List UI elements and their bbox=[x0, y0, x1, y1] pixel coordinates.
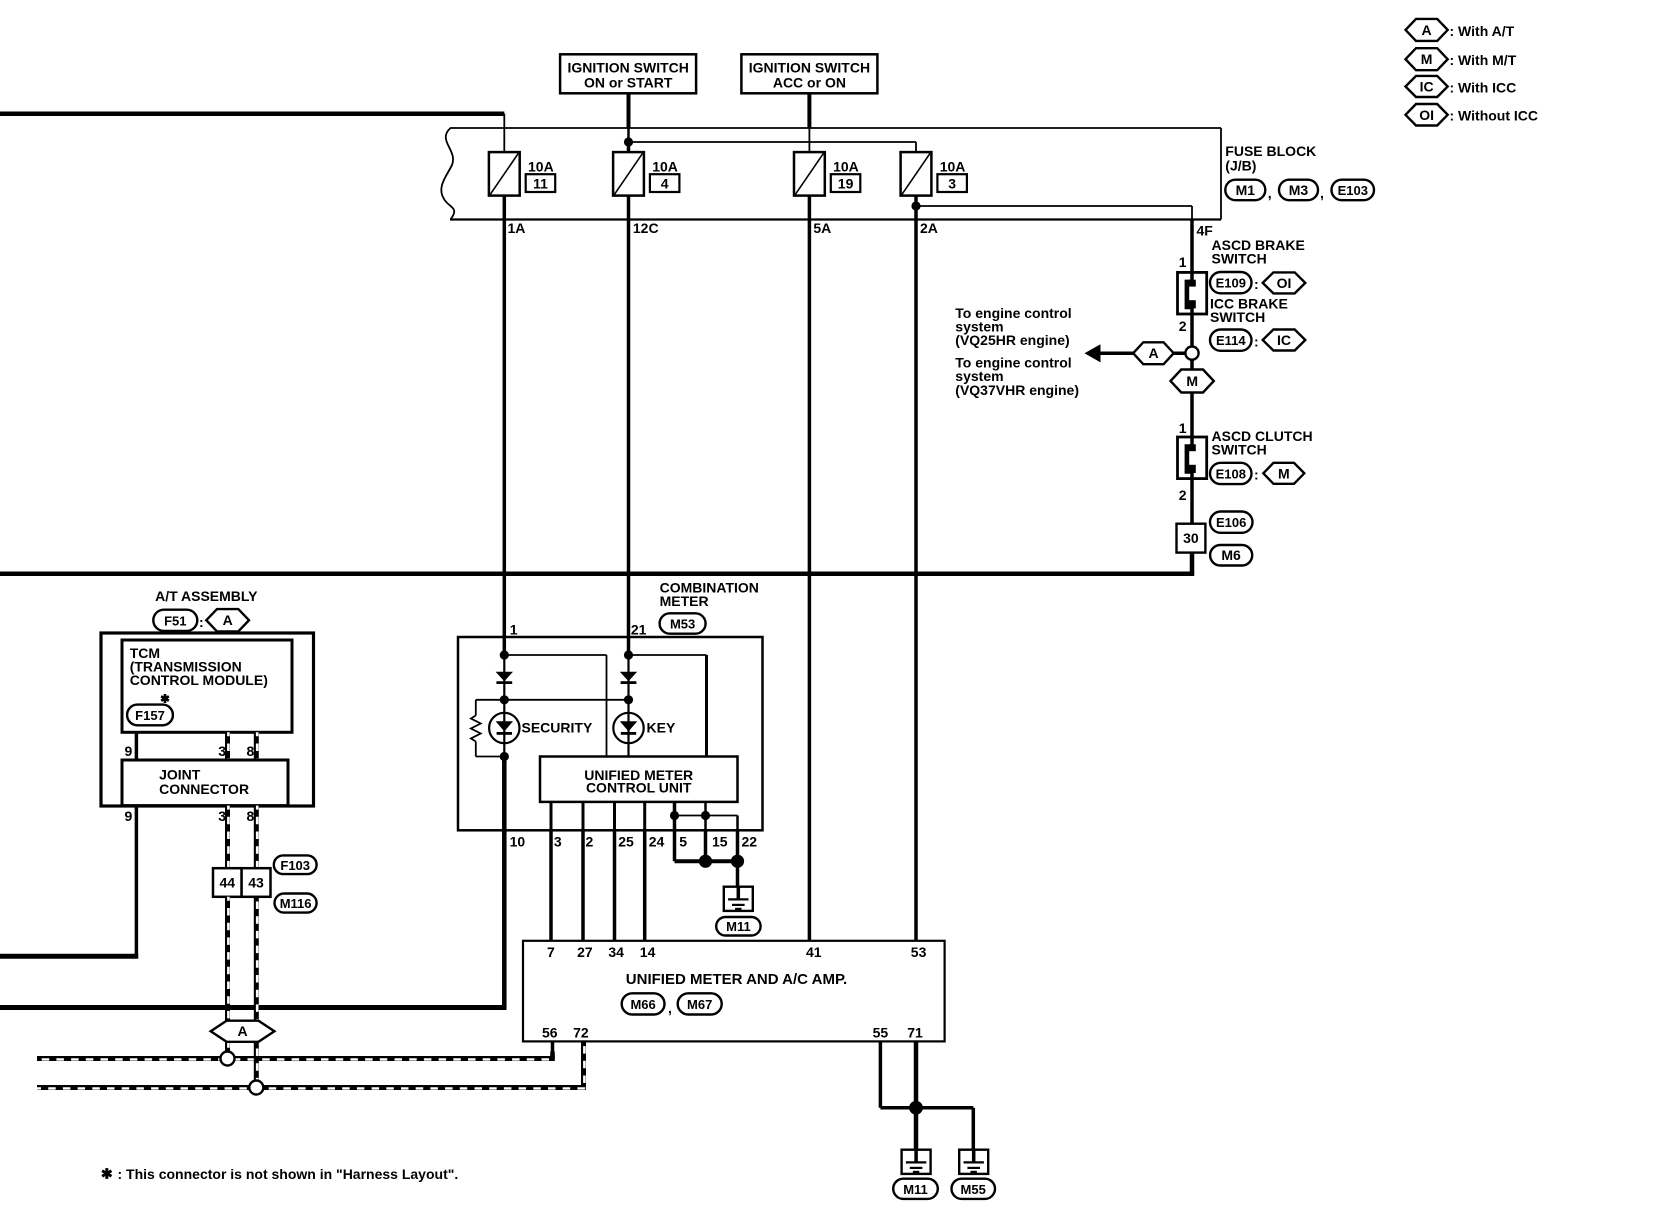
option hexagon A over wires bbox=[211, 1021, 275, 1042]
node dot security top bbox=[500, 650, 509, 659]
svg-text:43: 43 bbox=[248, 875, 264, 891]
svg-text:OI: OI bbox=[1277, 275, 1292, 291]
svg-text:72: 72 bbox=[573, 1025, 589, 1041]
connector F51 bbox=[153, 610, 197, 631]
ASCD brake switch contact bbox=[1178, 272, 1207, 314]
wire 44 striped down to shield line 1 bbox=[225, 897, 230, 1052]
svg-text:ON or START: ON or START bbox=[584, 75, 673, 91]
wire 4F inside fuse block bbox=[1191, 206, 1193, 220]
connector F103 bbox=[274, 855, 317, 874]
wire TCM pin 8 to joint connector (striped) bbox=[254, 732, 259, 760]
svg-text:25: 25 bbox=[618, 833, 634, 849]
svg-text:(J/B): (J/B) bbox=[1225, 158, 1256, 174]
wire 4F to ASCD brake switch pin 1 bbox=[1190, 220, 1194, 273]
wire resistor link bbox=[476, 699, 629, 701]
node fuse block top edge / wire bbox=[450, 127, 1221, 129]
wire meter pin 24 to amp pin 14 bbox=[643, 830, 647, 941]
unified meter control unit box bbox=[540, 757, 738, 802]
wire control unit pin 24 bbox=[643, 802, 646, 830]
svg-text:E106: E106 bbox=[1216, 515, 1246, 530]
connector M11 bbox=[893, 1179, 938, 1199]
connector M1 bbox=[1225, 180, 1265, 201]
connector M11 (meter ground) bbox=[716, 917, 760, 936]
svg-text:M116: M116 bbox=[280, 896, 312, 911]
wire pin 15 below meter bbox=[704, 830, 708, 861]
connector F157 bbox=[127, 705, 173, 726]
combination meter box bbox=[458, 637, 763, 830]
wire key diode/LED path bbox=[627, 655, 629, 757]
svg-text:: With A/T: : With A/T bbox=[1450, 23, 1515, 39]
wire battery power rail top-left bbox=[0, 111, 504, 116]
option hexagon OI bbox=[1263, 272, 1306, 293]
svg-text:: With M/T: : With M/T bbox=[1450, 52, 1517, 68]
svg-text:M66: M66 bbox=[630, 997, 655, 1012]
wire fuse-11 feed stub bbox=[503, 114, 505, 152]
connector M3 bbox=[1279, 180, 1318, 201]
option hexagon A bbox=[206, 609, 249, 631]
asterisk for F157 bbox=[164, 694, 167, 703]
svg-text:F51: F51 bbox=[164, 613, 186, 628]
svg-text:27: 27 bbox=[577, 944, 593, 960]
fuse 10A [4] bbox=[613, 152, 644, 196]
connector E114 bbox=[1210, 330, 1252, 351]
wire control unit pin 2 bbox=[582, 802, 585, 830]
wire pin 8 striped down to connector 43 bbox=[254, 806, 259, 869]
wire meter pin 2 to amp pin 27 bbox=[581, 830, 585, 941]
wire IGNITION SWITCH ACC or ON feed bbox=[807, 93, 811, 128]
connector E106 bbox=[1210, 512, 1253, 533]
shield wire line 2 (striped) bbox=[37, 1085, 586, 1090]
diode D1 (security) bbox=[496, 672, 513, 682]
wire control unit pin 25 bbox=[613, 802, 616, 830]
svg-text:IC: IC bbox=[1420, 79, 1434, 95]
svg-text:8: 8 bbox=[247, 808, 255, 824]
wire branch to 4F bbox=[916, 205, 1192, 207]
svg-text:CONTROL MODULE): CONTROL MODULE) bbox=[130, 672, 268, 688]
wire fuse-3 feed stub bbox=[915, 142, 917, 152]
wire control unit pin 5 bbox=[673, 802, 677, 830]
LED SECURITY bbox=[489, 713, 519, 743]
ground symbol M11 bbox=[902, 1150, 931, 1174]
svg-text:M67: M67 bbox=[687, 997, 712, 1012]
fuse 10A [3] bbox=[901, 152, 932, 196]
svg-text:F157: F157 bbox=[135, 708, 165, 723]
svg-text:9: 9 bbox=[125, 808, 133, 824]
wire TCM pin 9 to joint connector bbox=[135, 732, 139, 760]
svg-text:3: 3 bbox=[948, 176, 956, 192]
svg-text:1: 1 bbox=[1179, 420, 1187, 436]
svg-text:IC: IC bbox=[1277, 332, 1291, 348]
wire joint connector pin 9 down bbox=[135, 806, 139, 959]
node dot security mid bbox=[500, 695, 509, 704]
svg-text:F103: F103 bbox=[280, 858, 310, 873]
svg-text:A: A bbox=[223, 612, 233, 628]
wire IGNITION SWITCH ON or START feed bbox=[627, 93, 631, 128]
TCM box bbox=[122, 640, 292, 732]
svg-text:M3: M3 bbox=[1289, 182, 1309, 198]
node open circle junction bbox=[1185, 347, 1198, 360]
svg-text:(VQ37VHR engine): (VQ37VHR engine) bbox=[955, 382, 1079, 398]
svg-text:OI: OI bbox=[1419, 107, 1434, 123]
svg-text:15: 15 bbox=[712, 833, 728, 849]
node dot grounds junction bbox=[909, 1101, 923, 1115]
ignition switch ACC or ON box bbox=[741, 54, 877, 93]
node open circle wire 43 to line 2 bbox=[249, 1081, 263, 1095]
wire fuse-19 feed stub bbox=[808, 128, 810, 152]
wire 1A vertical (fuse 11 to combination meter pin 1) bbox=[503, 196, 507, 637]
svg-text:9: 9 bbox=[125, 743, 133, 759]
connector box 43 bbox=[242, 868, 271, 897]
svg-text:34: 34 bbox=[608, 944, 624, 960]
wire amp pin 56 stub bbox=[551, 1041, 555, 1058]
wire junction to M55 ground bbox=[916, 1106, 973, 1110]
joint connector box bbox=[122, 760, 288, 806]
wire amp pin 72 stub bbox=[581, 1041, 586, 1086]
svg-text:SWITCH: SWITCH bbox=[1212, 250, 1267, 266]
wire pin 1 into meter bbox=[503, 637, 507, 655]
svg-text:M6: M6 bbox=[1221, 547, 1241, 563]
wire TCM pin 3 to joint connector (striped) bbox=[225, 732, 230, 760]
svg-text:A/T ASSEMBLY: A/T ASSEMBLY bbox=[155, 588, 258, 604]
svg-text:FUSE BLOCK: FUSE BLOCK bbox=[1225, 143, 1316, 159]
option hexagon A on arrow bbox=[1133, 342, 1174, 364]
svg-text:2: 2 bbox=[1179, 487, 1187, 503]
connector M55 bbox=[952, 1179, 996, 1199]
wire 5A vertical (fuse 19 to unified meter amp pin 41) bbox=[808, 196, 812, 941]
wire fuse block left break (squiggle) bbox=[441, 128, 454, 220]
svg-text:E114: E114 bbox=[1216, 333, 1246, 348]
svg-text::: : bbox=[1254, 276, 1259, 292]
svg-text:METER: METER bbox=[660, 593, 709, 609]
svg-text:24: 24 bbox=[649, 833, 665, 849]
svg-text:55: 55 bbox=[873, 1025, 889, 1041]
svg-text:44: 44 bbox=[220, 875, 236, 891]
connector E103 bbox=[1332, 180, 1375, 201]
node junction dot on 2A wire bbox=[911, 201, 920, 210]
svg-text:ACC or ON: ACC or ON bbox=[773, 75, 846, 91]
svg-text:10A: 10A bbox=[528, 158, 554, 174]
svg-text:A: A bbox=[1422, 22, 1432, 38]
wire meter pin 25 to amp pin 34 bbox=[613, 830, 617, 941]
wire amp pin 71 down to ground bbox=[914, 1041, 919, 1149]
shield wire line 1 (striped) bbox=[37, 1056, 555, 1061]
wire M55 ground drop bbox=[972, 1108, 976, 1150]
connector M116 bbox=[275, 894, 317, 913]
connector box 44 bbox=[213, 868, 242, 897]
svg-text:SWITCH: SWITCH bbox=[1210, 309, 1265, 325]
svg-text:M53: M53 bbox=[670, 617, 695, 632]
node junction dot below ignition ON feed bbox=[624, 137, 633, 146]
svg-text:,: , bbox=[1320, 185, 1324, 201]
svg-text::: : bbox=[1254, 467, 1259, 483]
option hexagon M on wire bbox=[1171, 370, 1214, 393]
wire internal jumper to fuse 3 branch bbox=[629, 141, 917, 143]
svg-text:10A: 10A bbox=[833, 158, 859, 174]
svg-text:M1: M1 bbox=[1236, 182, 1256, 198]
node dot ground bus 1 bbox=[699, 855, 712, 868]
legend hexagon M bbox=[1406, 48, 1448, 70]
wire pin 22 below meter to ground bbox=[736, 830, 740, 886]
wire security LED path bbox=[503, 713, 505, 757]
svg-text::: : bbox=[199, 614, 204, 630]
fuse 10A [11] bbox=[489, 152, 520, 196]
wire control unit pin 15 bbox=[704, 802, 707, 830]
svg-text:21: 21 bbox=[631, 622, 647, 638]
connector M53 bbox=[660, 613, 706, 633]
connector M6 bbox=[1210, 545, 1252, 566]
connector M66 bbox=[622, 993, 665, 1014]
svg-text:22: 22 bbox=[742, 833, 758, 849]
svg-text:7: 7 bbox=[547, 944, 555, 960]
svg-text:2A: 2A bbox=[920, 220, 938, 236]
fuse 10A [19] bbox=[794, 152, 825, 196]
wire ground jumper bbox=[675, 815, 738, 817]
svg-text:1: 1 bbox=[1179, 254, 1187, 270]
svg-text:4: 4 bbox=[661, 176, 669, 192]
svg-text:12C: 12C bbox=[633, 220, 659, 236]
svg-text:5A: 5A bbox=[813, 220, 831, 236]
svg-text:CONNECTOR: CONNECTOR bbox=[159, 781, 249, 797]
wire key branch right bbox=[629, 654, 707, 656]
svg-text:M: M bbox=[1421, 51, 1433, 67]
svg-text:: Without ICC: : Without ICC bbox=[1450, 108, 1539, 124]
wire 2A vertical (fuse 3 to unified meter amp pin 53) bbox=[914, 196, 918, 941]
svg-text:E109: E109 bbox=[1216, 276, 1246, 291]
wire pin 5 below meter bbox=[673, 830, 677, 861]
wire 12C vertical (fuse 4 to combination meter pin 21) bbox=[627, 196, 631, 637]
wire through connector 30 bbox=[1190, 524, 1194, 553]
svg-text:1: 1 bbox=[510, 622, 518, 638]
connector M67 bbox=[678, 993, 722, 1014]
wire fuse block right edge bbox=[1220, 128, 1222, 220]
svg-text:10: 10 bbox=[510, 833, 526, 849]
legend hexagon OI bbox=[1406, 104, 1448, 126]
node dot security bottom bbox=[500, 752, 509, 761]
wire security branch right bbox=[504, 654, 606, 656]
wire pin 3 striped down to connector 44 bbox=[225, 806, 230, 869]
ground symbol M55 bbox=[959, 1150, 988, 1174]
svg-text:SECURITY: SECURITY bbox=[522, 719, 593, 735]
svg-text:2: 2 bbox=[586, 833, 594, 849]
node dot pin 15 jumper bbox=[701, 811, 710, 820]
svg-text:IGNITION SWITCH: IGNITION SWITCH bbox=[749, 59, 870, 75]
svg-text::: : bbox=[1254, 334, 1259, 350]
ground symbol (meter) bbox=[724, 887, 753, 911]
LED KEY bbox=[613, 713, 643, 743]
svg-text:19: 19 bbox=[838, 176, 854, 192]
unified meter and A/C amp box bbox=[523, 941, 945, 1042]
ASCD clutch switch contact bbox=[1178, 437, 1207, 479]
svg-text:E103: E103 bbox=[1338, 183, 1368, 198]
svg-text:A: A bbox=[1148, 345, 1158, 361]
svg-text:71: 71 bbox=[907, 1025, 923, 1041]
svg-text:41: 41 bbox=[806, 944, 822, 960]
arrowhead bbox=[1085, 344, 1101, 362]
wire meter pin 3 to amp pin 7 bbox=[549, 830, 553, 941]
wire pin 10 down bbox=[502, 757, 507, 831]
wire connector 30 down to ground rail bbox=[1190, 553, 1195, 574]
svg-text:14: 14 bbox=[640, 944, 656, 960]
node dot ground bus 2 bbox=[731, 855, 744, 868]
svg-text:11: 11 bbox=[533, 176, 548, 192]
wire arrow to engine control system bbox=[1097, 352, 1186, 356]
wire brake switch pin 2 to node bbox=[1190, 314, 1194, 347]
wire control unit pin 3 bbox=[550, 802, 553, 830]
svg-text:53: 53 bbox=[911, 944, 927, 960]
svg-text:SWITCH: SWITCH bbox=[1212, 442, 1267, 458]
svg-text:M: M bbox=[1278, 465, 1290, 481]
wire fuse-4 feed stub bbox=[627, 142, 631, 152]
svg-text:M11: M11 bbox=[726, 919, 751, 934]
svg-text:IGNITION SWITCH: IGNITION SWITCH bbox=[568, 59, 689, 75]
node dot pin 5 jumper bbox=[670, 811, 679, 820]
wire pin 55 to pin 71 junction bbox=[880, 1106, 916, 1110]
wire security diode path bbox=[503, 655, 505, 713]
ignition switch ON or START box bbox=[560, 54, 696, 93]
svg-text:E108: E108 bbox=[1216, 466, 1246, 481]
svg-text:10A: 10A bbox=[652, 158, 678, 174]
svg-text:M55: M55 bbox=[961, 1182, 986, 1197]
svg-text:M: M bbox=[1186, 373, 1198, 389]
wire ground rail horizontal bbox=[0, 572, 1194, 577]
svg-text:10A: 10A bbox=[940, 158, 966, 174]
svg-text:56: 56 bbox=[542, 1025, 558, 1041]
svg-text:1A: 1A bbox=[508, 220, 526, 236]
svg-text:: With ICC: : With ICC bbox=[1450, 79, 1517, 95]
wire clutch switch to connector 30 bbox=[1190, 479, 1194, 524]
wire 43 striped down to shield line 2 bbox=[254, 897, 259, 1081]
svg-text:3: 3 bbox=[554, 833, 562, 849]
wire pin 21 into meter bbox=[627, 637, 631, 655]
svg-text:,: , bbox=[1268, 185, 1272, 201]
svg-text:,: , bbox=[668, 1000, 672, 1016]
svg-text:: This connector is not shown: : This connector is not shown in "Harnes… bbox=[118, 1166, 459, 1182]
svg-text:A: A bbox=[237, 1023, 247, 1039]
A/T assembly outer box bbox=[101, 633, 314, 806]
wire pin 22 stub bbox=[736, 816, 739, 831]
svg-text:(VQ25HR engine): (VQ25HR engine) bbox=[955, 332, 1069, 348]
wire pin 10 down to left rail bbox=[502, 830, 507, 1007]
option hexagon IC bbox=[1263, 330, 1306, 351]
svg-text:5: 5 bbox=[679, 833, 687, 849]
connector E108 bbox=[1210, 463, 1252, 484]
diode D2 (key) bbox=[620, 672, 637, 682]
svg-text:8: 8 bbox=[247, 743, 255, 759]
svg-text:CONTROL UNIT: CONTROL UNIT bbox=[586, 780, 692, 796]
node dot key top bbox=[624, 650, 633, 659]
wire fuse block bottom edge bbox=[450, 218, 1221, 220]
option hexagon M bbox=[1263, 463, 1304, 484]
connector E109 bbox=[1210, 272, 1252, 293]
connector box 30 bbox=[1177, 524, 1206, 553]
svg-text:M11: M11 bbox=[903, 1182, 928, 1197]
wire node to ASCD clutch switch bbox=[1190, 360, 1194, 437]
node dot key mid bbox=[624, 695, 633, 704]
node open circle wire 44 to line 1 bbox=[221, 1052, 235, 1066]
resistor in security LED circuit bbox=[475, 700, 477, 716]
wire amp pin 55 down bbox=[879, 1041, 883, 1107]
svg-text:2: 2 bbox=[1179, 318, 1187, 334]
legend hexagon A bbox=[1406, 19, 1448, 41]
wire pin 10 horizontal rail bbox=[0, 1005, 507, 1010]
legend hexagon IC bbox=[1406, 76, 1448, 97]
svg-text:UNIFIED METER AND A/C AMP.: UNIFIED METER AND A/C AMP. bbox=[626, 971, 847, 988]
wire ground bus bbox=[675, 859, 738, 863]
svg-text:30: 30 bbox=[1183, 530, 1199, 546]
svg-text:3: 3 bbox=[218, 743, 226, 759]
footnote asterisk bbox=[105, 1168, 108, 1179]
wire pin 9 to left edge bbox=[0, 954, 138, 959]
svg-text:KEY: KEY bbox=[647, 719, 676, 735]
